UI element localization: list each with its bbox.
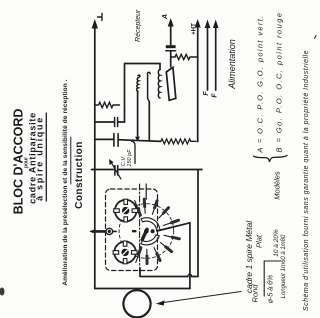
capacitor C1	[166, 45, 176, 48]
resistor R3	[161, 139, 196, 144]
supply arrow F1	[207, 27, 209, 90]
switch radial wires	[135, 198, 179, 264]
junction arrow at bus	[135, 137, 140, 141]
switch wiper	[142, 229, 147, 239]
svg-text:F: F	[212, 93, 219, 98]
svg-text:Alimentation: Alimentation	[227, 39, 237, 90]
svg-text:Amélioration de la présélectio: Amélioration de la présélection et de la…	[62, 79, 69, 285]
socket dial 2	[113, 241, 137, 264]
svg-text:Schéma d'utilisation fourni sa: Schéma d'utilisation fourni sans garanti…	[303, 50, 310, 311]
svg-text:Plat: Plat	[254, 234, 263, 248]
wire stub above switch	[145, 184, 147, 199]
node stub wire	[132, 141, 136, 163]
trimmer arrow	[111, 162, 121, 179]
ground bus wire	[95, 139, 161, 141]
supply arrow F2	[215, 27, 217, 90]
+HT rail with arrow	[197, 26, 199, 142]
svg-text:+HT: +HT	[191, 23, 197, 35]
wire L2 to bus	[148, 102, 150, 141]
wire coil L3 top	[159, 64, 161, 70]
switch hub	[144, 229, 149, 234]
coil L2	[148, 72, 151, 101]
edge smudge	[0, 288, 5, 296]
capacitor C2	[95, 121, 125, 123]
antenna wire to receiver	[94, 27, 96, 289]
control shaft	[89, 228, 116, 234]
resistor R2	[171, 54, 198, 59]
wire top bracket	[125, 64, 161, 123]
wire node A down	[170, 52, 172, 67]
switch wafer plate	[166, 67, 176, 100]
svg-text:Rond: Rond	[251, 284, 260, 303]
switch contacts (lozenges)	[136, 198, 181, 266]
capacitor C3	[114, 134, 118, 147]
svg-text:Récepteur: Récepteur	[135, 9, 142, 42]
switch rotor arc	[141, 218, 160, 230]
pointer arrow to loop	[163, 292, 242, 303]
mounting panel (dashed)	[106, 189, 158, 271]
wire hop over	[188, 274, 192, 276]
svg-text:A = O.C. P.O. G.O. point ve: A = O.C. P.O. G.O. point vert.	[255, 14, 264, 153]
svg-text:B = Go. P.O. O.C. point rou: B = Go. P.O. O.C. point rouge	[275, 12, 284, 153]
svg-text:F: F	[203, 91, 210, 96]
footer tick	[315, 36, 317, 39]
resistor R1	[95, 102, 120, 107]
key mark on panel	[132, 230, 137, 232]
loop table rules	[264, 261, 280, 296]
wire L1 to bus	[137, 91, 139, 139]
svg-text:150 pF: 150 pF	[127, 149, 133, 167]
table brace	[254, 155, 288, 161]
caption underline rule	[70, 137, 72, 184]
panel axis line (dash-dot)	[139, 184, 141, 273]
switch output dot	[151, 229, 155, 233]
socket dial 1	[114, 199, 138, 222]
antenna terminal T mark	[98, 14, 103, 21]
rotary switch S1	[119, 198, 181, 266]
svg-text:ø-5 à 6%: ø-5 à 6%	[268, 275, 275, 303]
svg-text:cadre 1 spire Métal: cadre 1 spire Métal	[244, 220, 254, 293]
wire from switch to loop	[157, 223, 190, 289]
antenna arrowhead	[92, 19, 98, 29]
coil L1	[137, 75, 140, 91]
single turn loop	[123, 290, 150, 317]
node A arrow	[170, 25, 172, 45]
svg-text:Construction: Construction	[74, 141, 85, 209]
switch contact circle (dashed)	[119, 204, 174, 259]
svg-text:10 à 20%: 10 à 20%	[273, 229, 280, 257]
chassis box	[92, 170, 203, 289]
svg-text:Modèles: Modèles	[272, 171, 281, 200]
trimmer capacitor CV	[115, 166, 118, 176]
title underline rule	[45, 113, 47, 201]
coil L3	[158, 70, 160, 98]
svg-text:à spire unique: à spire unique	[35, 116, 45, 201]
svg-text:A: A	[162, 14, 169, 20]
svg-text:Longueur 1m60 à 1m80: Longueur 1m60 à 1m80	[281, 234, 287, 298]
svg-text:C.V.: C.V.	[121, 156, 127, 167]
